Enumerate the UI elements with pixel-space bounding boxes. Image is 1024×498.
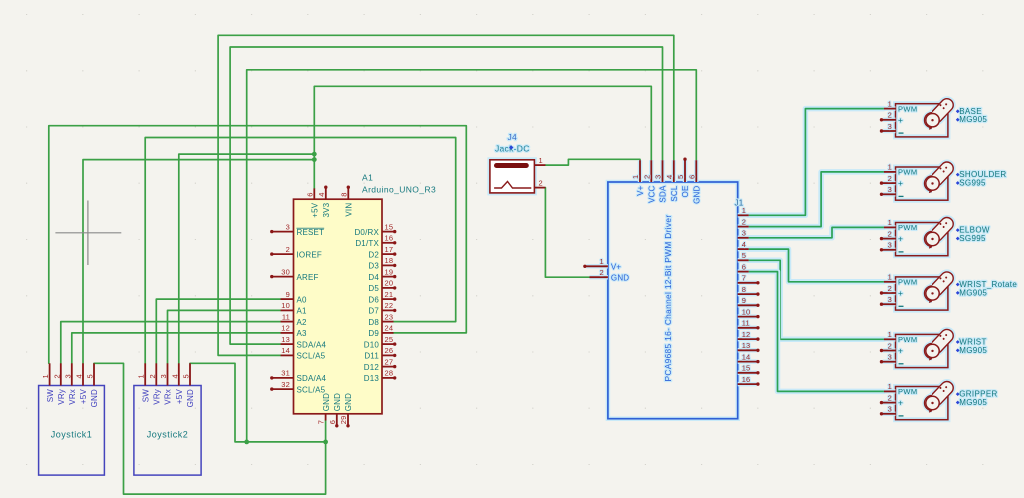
svg-text:17: 17 <box>385 245 394 254</box>
svg-text:D5: D5 <box>368 284 379 293</box>
svg-text:3: 3 <box>742 229 746 238</box>
wire SCL net (PCA pin4 to Arduino SCL/A5) <box>218 35 674 355</box>
wire PWM2 (PCA pin3 to ELBOW servo) <box>749 227 884 237</box>
svg-text:Arduino_UNO_R3: Arduino_UNO_R3 <box>362 185 436 195</box>
svg-text:11: 11 <box>282 312 290 321</box>
svg-text:1: 1 <box>137 374 146 378</box>
svg-text:1: 1 <box>41 374 50 378</box>
svg-text:2: 2 <box>286 245 290 254</box>
svg-text:19: 19 <box>385 267 394 276</box>
svg-text:SG995: SG995 <box>959 234 986 243</box>
svg-text:SW: SW <box>46 389 55 403</box>
svg-text:3: 3 <box>286 222 290 231</box>
svg-text:9: 9 <box>286 290 290 299</box>
wire PWM4 (PCA pin5 to WRIST servo) <box>749 260 884 339</box>
svg-text:30: 30 <box>281 267 290 276</box>
svg-text:D13: D13 <box>364 374 380 383</box>
svg-text:D11: D11 <box>364 352 379 361</box>
svg-text:SDA: SDA <box>659 185 668 203</box>
svg-text:GND: GND <box>322 393 331 411</box>
wire PWM0 (PCA pin1 to BASE servo) <box>749 109 884 216</box>
svg-text:+: + <box>898 234 903 244</box>
svg-text:3: 3 <box>888 122 892 131</box>
svg-text:SDA/A4: SDA/A4 <box>297 374 327 383</box>
svg-text:GND: GND <box>90 389 99 407</box>
svg-text:Joystick1: Joystick1 <box>51 430 93 440</box>
svg-text:D2: D2 <box>368 250 379 259</box>
wire PWM5 (PCA pin6 to GRIPPER servo) <box>749 272 884 392</box>
svg-text:1: 1 <box>888 273 892 282</box>
servo motor GRIPPER MG905 <box>880 379 998 420</box>
svg-text:PCA9685 16- Channel 12-Bit PWM: PCA9685 16- Channel 12-Bit PWM Driver <box>663 215 673 382</box>
svg-text:8: 8 <box>742 285 746 294</box>
svg-text:VRy: VRy <box>153 389 162 405</box>
svg-text:D9: D9 <box>368 329 379 338</box>
svg-text:5: 5 <box>86 374 95 378</box>
svg-text:3V3: 3V3 <box>322 202 331 217</box>
svg-text:1: 1 <box>539 156 543 165</box>
wire GND (Joystick2 GND to GND net) <box>190 363 247 442</box>
wire PWM3 (PCA pin4 to WRIST_Rotate servo) <box>749 249 884 282</box>
svg-text:RESET: RESET <box>297 228 325 237</box>
wire (Joystick2 VRy to Arduino A0) <box>156 299 280 363</box>
servo motor WRIST MG905 <box>880 327 988 368</box>
svg-text:22: 22 <box>385 301 394 310</box>
svg-text:2: 2 <box>742 217 746 226</box>
svg-text:A1: A1 <box>362 173 373 183</box>
svg-text:J1: J1 <box>735 199 744 208</box>
junction +5V / Joystick1 <box>312 157 317 162</box>
junction GND net <box>244 440 249 445</box>
wire PWM1 (PCA pin2 to SHOULDER servo) <box>749 172 884 227</box>
svg-text:2: 2 <box>888 111 892 120</box>
svg-text:12: 12 <box>281 324 290 333</box>
wire GND (junction to Arduino pin7 drop) <box>247 441 326 443</box>
svg-text:J4: J4 <box>508 132 518 142</box>
svg-text:2: 2 <box>888 174 892 183</box>
svg-text:1: 1 <box>888 330 892 339</box>
svg-text:+: + <box>898 115 903 125</box>
origin crosshair marker <box>55 201 121 266</box>
wire GND (Jack pin2 to PCA GND) <box>545 188 596 278</box>
svg-text:+: + <box>898 288 903 298</box>
svg-text:2: 2 <box>888 229 892 238</box>
svg-text:1: 1 <box>888 382 892 391</box>
svg-text:13: 13 <box>281 335 290 344</box>
svg-text:4: 4 <box>170 374 179 378</box>
svg-text:PWM: PWM <box>898 168 918 177</box>
svg-text:GND: GND <box>693 185 702 203</box>
svg-text:14: 14 <box>281 346 290 355</box>
servo motor WRIST_Rotate MG905 <box>880 269 1018 310</box>
svg-text:+: + <box>898 398 903 408</box>
svg-text:IOREF: IOREF <box>297 250 322 259</box>
svg-text:3: 3 <box>63 374 72 378</box>
svg-text:Joystick2: Joystick2 <box>147 430 189 440</box>
svg-text:10: 10 <box>281 301 290 310</box>
svg-text:D0/RX: D0/RX <box>354 228 379 237</box>
svg-text:4: 4 <box>75 374 84 378</box>
svg-text:23: 23 <box>385 312 394 321</box>
wire +5V net (PCA pin2 to Arduino +5V) <box>314 86 651 188</box>
wire (Joystick1 VRx to Arduino A3) <box>72 333 281 363</box>
wire GND net (PCA pin6 down left) <box>247 70 697 442</box>
svg-text:6: 6 <box>305 192 314 196</box>
wire D8 net (Arduino D8 to Joystick2 SW) <box>145 138 456 364</box>
svg-text:GND: GND <box>344 393 353 411</box>
junction +5V / Joystick2 <box>312 152 317 157</box>
svg-text:D8: D8 <box>368 318 379 327</box>
svg-text:18: 18 <box>385 256 394 265</box>
svg-text:SW: SW <box>141 389 150 403</box>
wire V+ net (Jack pin1 to PCA pin1) <box>545 159 640 165</box>
svg-text:GND: GND <box>186 389 195 407</box>
svg-text:15: 15 <box>385 222 394 231</box>
wire D9 net (Arduino D9 to Joystick1 SW) <box>49 126 467 364</box>
svg-text:7: 7 <box>317 420 326 424</box>
svg-text:D7: D7 <box>368 307 379 316</box>
servo motor BASE MG905 <box>880 96 988 137</box>
svg-text:A3: A3 <box>297 329 308 338</box>
svg-text:PWM: PWM <box>898 335 918 344</box>
svg-text:14: 14 <box>742 352 751 361</box>
svg-text:2: 2 <box>148 374 157 378</box>
svg-text:8: 8 <box>339 192 348 196</box>
svg-text:D10: D10 <box>364 340 380 349</box>
svg-text:11: 11 <box>742 319 750 328</box>
svg-text:PWM: PWM <box>898 104 918 113</box>
svg-text:VCC: VCC <box>648 185 657 203</box>
svg-text:D12: D12 <box>364 363 380 372</box>
svg-text:6: 6 <box>687 175 696 179</box>
svg-text:31: 31 <box>281 369 290 378</box>
svg-text:28: 28 <box>385 369 394 378</box>
svg-text:SCL/A5: SCL/A5 <box>297 352 326 361</box>
svg-text:VRx: VRx <box>164 389 173 405</box>
svg-text:5: 5 <box>676 175 685 179</box>
svg-text:+5V: +5V <box>311 202 320 218</box>
svg-text:+5V: +5V <box>79 389 88 405</box>
svg-text:+: + <box>898 346 903 356</box>
svg-text:3: 3 <box>888 295 892 304</box>
servo motor ELBOW SG995 <box>880 215 990 256</box>
svg-text:4: 4 <box>665 175 674 179</box>
svg-text:24: 24 <box>385 324 394 333</box>
svg-text:PWM: PWM <box>898 223 918 232</box>
svg-text:15: 15 <box>742 364 751 373</box>
svg-text:10: 10 <box>742 307 751 316</box>
svg-text:25: 25 <box>385 335 394 344</box>
svg-text:D3: D3 <box>368 262 379 271</box>
svg-text:2: 2 <box>539 179 543 188</box>
svg-text:1: 1 <box>631 175 640 179</box>
svg-text:6: 6 <box>328 420 337 424</box>
svg-text:GND: GND <box>333 393 342 411</box>
svg-text:3: 3 <box>888 405 892 414</box>
svg-text:A0: A0 <box>297 295 308 304</box>
svg-text:2: 2 <box>600 268 604 277</box>
svg-text:VRy: VRy <box>57 389 66 405</box>
svg-text:SDA/A4: SDA/A4 <box>297 340 327 349</box>
joystick Joystick1 <box>39 363 105 475</box>
svg-text:5: 5 <box>182 374 191 378</box>
svg-text:D4: D4 <box>368 273 379 282</box>
svg-text:2: 2 <box>52 374 61 378</box>
wire (Joystick2 VRx to Arduino A1) <box>168 310 281 363</box>
svg-text:3: 3 <box>888 185 892 194</box>
svg-text:21: 21 <box>385 290 394 299</box>
svg-text:VIN: VIN <box>345 203 354 217</box>
svg-text:SG995: SG995 <box>959 178 986 187</box>
svg-text:32: 32 <box>281 380 290 389</box>
svg-text:3: 3 <box>888 241 892 250</box>
svg-text:1: 1 <box>600 257 604 266</box>
svg-text:29: 29 <box>339 416 348 425</box>
svg-text:2: 2 <box>888 393 892 402</box>
svg-text:1: 1 <box>888 163 892 172</box>
svg-text:4: 4 <box>742 240 746 249</box>
joystick Joystick2 <box>134 363 201 475</box>
svg-text:SCL: SCL <box>670 185 679 202</box>
svg-text:V+: V+ <box>636 185 645 196</box>
svg-text:3: 3 <box>888 353 892 362</box>
svg-text:16: 16 <box>742 375 751 384</box>
DC barrel jack J4 Jack-DC <box>490 132 546 193</box>
svg-text:PWM: PWM <box>898 278 918 287</box>
svg-text:D6: D6 <box>368 295 379 304</box>
svg-text:+5V: +5V <box>175 389 184 405</box>
svg-text:GND: GND <box>611 273 629 282</box>
svg-text:3: 3 <box>654 175 663 179</box>
wire (Joystick1 VRy to Arduino A2) <box>61 322 281 364</box>
svg-text:MG905: MG905 <box>959 288 987 297</box>
svg-text:1: 1 <box>888 99 892 108</box>
svg-text:13: 13 <box>742 341 751 350</box>
svg-text:5: 5 <box>742 251 746 260</box>
svg-text:26: 26 <box>385 346 394 355</box>
svg-text:16: 16 <box>385 234 394 243</box>
svg-text:3: 3 <box>159 374 168 378</box>
svg-text:+: + <box>898 178 903 188</box>
wire GND (Joystick1 GND to Arduino GND pin7) <box>94 363 326 494</box>
Arduino UNO R3 A1 <box>270 173 436 428</box>
svg-text:2: 2 <box>888 284 892 293</box>
svg-text:PWM: PWM <box>898 387 918 396</box>
svg-text:9: 9 <box>742 296 746 305</box>
svg-text:A2: A2 <box>297 318 308 327</box>
svg-text:7: 7 <box>742 274 746 283</box>
PCA9685 PWM driver module <box>583 158 759 419</box>
svg-text:A1: A1 <box>297 307 308 316</box>
svg-text:1: 1 <box>888 218 892 227</box>
svg-text:27: 27 <box>385 357 394 366</box>
svg-text:MG905: MG905 <box>959 115 987 124</box>
svg-text:6: 6 <box>742 262 746 271</box>
svg-text:MG905: MG905 <box>959 398 987 407</box>
svg-text:VRx: VRx <box>68 389 77 405</box>
servo motor SHOULDER SG995 <box>880 159 1007 200</box>
wire SDA net (PCA pin3 to Arduino SDA/A4) <box>230 47 662 344</box>
svg-text:4: 4 <box>317 192 326 196</box>
svg-text:D1/TX: D1/TX <box>355 239 379 248</box>
svg-text:20: 20 <box>385 279 394 288</box>
svg-text:12: 12 <box>742 330 751 339</box>
junction GND at Arduino pin7 drop <box>323 440 328 445</box>
svg-text:2: 2 <box>642 175 651 179</box>
svg-text:V+: V+ <box>611 263 622 272</box>
svg-text:OE: OE <box>681 186 690 198</box>
wire (Joystick1 +5V to 5V net) <box>83 160 314 364</box>
svg-text:AREF: AREF <box>297 273 319 282</box>
svg-text:2: 2 <box>888 341 892 350</box>
wire (Joystick2 +5V to 5V net) <box>179 154 314 363</box>
svg-text:MG905: MG905 <box>959 346 987 355</box>
